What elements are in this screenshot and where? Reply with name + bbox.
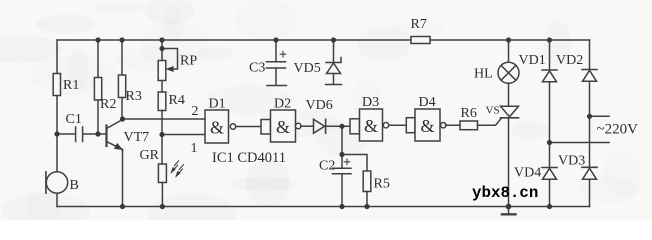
node top VD5: [331, 37, 336, 42]
node VD6 D3: [339, 124, 344, 129]
wire D3 out: [389, 124, 407, 126]
wire top right corner: [589, 40, 591, 70]
wire left column mid: [56, 96, 58, 172]
wire left column top: [56, 40, 58, 74]
wire collector to pin 2: [123, 118, 206, 120]
node bottom VS ground: [506, 204, 512, 210]
svg-text:D3: D3: [362, 95, 379, 110]
potentiometer RP: [161, 40, 163, 61]
svg-text:&: &: [210, 118, 224, 138]
svg-text:IC1 CD4011: IC1 CD4011: [212, 150, 286, 166]
wire C1 to base: [83, 133, 106, 135]
wire C2 to bottom rail: [341, 174, 343, 207]
diode VD3: [582, 166, 597, 168]
wire node B to VD3: [589, 116, 591, 167]
capacitor C1: [76, 127, 83, 142]
node B AC1: [587, 114, 592, 119]
svg-text:VD3: VD3: [558, 154, 585, 169]
wire GR to bottom rail: [161, 183, 163, 207]
svg-text:D4: D4: [419, 95, 436, 110]
wire VD4 to bottom rail: [549, 179, 551, 206]
capacitor C3: [275, 40, 277, 62]
wire D4 out: [445, 124, 460, 126]
diode VD1: [542, 69, 557, 71]
resistor R4: [158, 92, 166, 111]
wire mic to bottom rail: [56, 193, 58, 206]
svg-text:VT7: VT7: [124, 130, 150, 145]
wire R2 column: [97, 40, 99, 78]
node top C3: [273, 37, 278, 42]
resistor R7: [411, 37, 430, 44]
wire R3 bottom: [121, 98, 123, 120]
node C2 R5: [339, 152, 344, 157]
wire R2 bottom: [97, 100, 99, 134]
wire R5 branch: [342, 155, 367, 172]
zener VD5: [333, 40, 335, 63]
svg-text:R1: R1: [63, 78, 79, 93]
nand gate D2: [261, 120, 271, 135]
svg-text:C2: C2: [319, 159, 335, 174]
node top HL: [506, 37, 511, 42]
node collector: [120, 116, 125, 121]
wire VS cathode to bottom rail: [508, 118, 510, 207]
node top RP: [159, 37, 164, 42]
transistor VT7: [105, 126, 107, 147]
resistor R3: [118, 75, 125, 98]
svg-text:&: &: [421, 116, 435, 136]
wire AC terminal 2: [550, 142, 610, 144]
wire D1 out: [236, 126, 261, 128]
node bottom emitter: [120, 204, 125, 209]
node top R2: [95, 37, 100, 42]
node bottom GR: [160, 204, 165, 209]
wire RP to R4: [161, 81, 163, 93]
svg-text:D1: D1: [209, 97, 226, 112]
svg-text:&: &: [276, 117, 290, 137]
svg-text:B: B: [70, 178, 79, 193]
node RP wiper: [159, 46, 164, 51]
wire top rail right segment: [430, 39, 590, 41]
lamp HL: [498, 62, 519, 83]
svg-text:D2: D2: [274, 97, 291, 112]
ground: [508, 207, 510, 214]
node bottom VD4: [547, 204, 552, 209]
svg-text:1: 1: [191, 141, 198, 156]
wire R5 to bottom rail: [366, 192, 368, 207]
wire bottom rail: [57, 206, 590, 208]
wire VD2 to node B: [589, 81, 591, 116]
svg-text:VS: VS: [486, 105, 500, 117]
wire AC terminal 1: [590, 115, 610, 117]
svg-text:R7: R7: [411, 17, 427, 32]
svg-text:ybx8.cn: ybx8.cn: [472, 184, 538, 202]
svg-text:R4: R4: [169, 93, 185, 108]
node top VD1: [547, 37, 552, 42]
svg-text:HL: HL: [474, 67, 493, 82]
wire node A to VD4: [549, 143, 551, 168]
wire top rail left segment: [57, 39, 411, 41]
svg-text:C1: C1: [66, 112, 82, 127]
wire HL to VS: [508, 83, 510, 106]
node bottom C2: [339, 204, 344, 209]
microphone B: [46, 172, 67, 193]
svg-text:GR: GR: [140, 148, 160, 163]
svg-text:VD1: VD1: [519, 53, 546, 68]
resistor R6: [460, 121, 478, 130]
resistor R5: [363, 171, 371, 192]
svg-text:R5: R5: [374, 177, 390, 192]
svg-text:R2: R2: [100, 97, 116, 112]
svg-text:&: &: [364, 116, 378, 136]
wire R4 to GR: [161, 111, 163, 165]
nand gate D1: [205, 110, 229, 143]
svg-text:R3: R3: [126, 89, 142, 104]
svg-text:R6: R6: [461, 106, 477, 121]
svg-text:VD6: VD6: [306, 98, 333, 113]
wire pin 1: [162, 134, 205, 136]
resistor R1: [53, 74, 60, 96]
capacitor C2: [333, 168, 352, 174]
node top R3: [119, 37, 124, 42]
node pin1: [159, 132, 164, 137]
node base R2: [95, 131, 100, 136]
wire VD6 to D3: [326, 125, 350, 127]
resistor R2: [94, 78, 101, 101]
diode VD2: [582, 69, 597, 71]
svg-text:VD2: VD2: [556, 53, 583, 68]
wire HL top: [508, 40, 510, 62]
thyristor VS: [501, 106, 519, 117]
wire VD1 to node A: [549, 82, 551, 143]
diode VD4: [542, 167, 557, 169]
wire emitter to bottom rail: [122, 150, 124, 207]
wire R3 column: [121, 40, 123, 75]
nand gate D4: [406, 118, 415, 133]
node A AC2: [547, 140, 552, 145]
node bottom R5: [364, 204, 369, 209]
svg-text:~220V: ~220V: [597, 122, 639, 138]
svg-text:C3: C3: [249, 61, 265, 76]
svg-text:2: 2: [192, 104, 199, 119]
nand gate D3: [350, 119, 360, 134]
wire VD3 to bottom rail: [589, 179, 591, 206]
svg-text:VD4: VD4: [514, 166, 541, 181]
diode VD6: [314, 119, 325, 133]
wire C2 branch: [341, 126, 343, 168]
svg-text:RP: RP: [180, 54, 197, 69]
wire C1 branch left: [57, 133, 75, 135]
wire D2 out: [301, 125, 314, 127]
wire VD1 top: [549, 40, 551, 70]
node C1 R1: [54, 131, 59, 136]
wire R6 to gate: [478, 118, 502, 125]
photoresistor GR: [158, 164, 166, 183]
svg-text:VD5: VD5: [294, 61, 321, 76]
